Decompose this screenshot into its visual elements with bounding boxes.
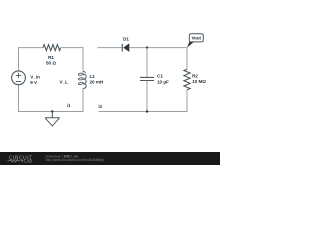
resistor R1 xyxy=(43,45,61,51)
svg-text:http://www.circuitlab.com/circ: http://www.circuitlab.com/circuit/4888bg… xyxy=(46,158,105,162)
voltage source V_in xyxy=(12,71,26,85)
svg-text:50 Ω: 50 Ω xyxy=(46,61,56,66)
wire diode to top-right corner xyxy=(129,48,187,70)
wire R1 to top-right corner of left loop xyxy=(61,48,83,72)
Vout flag pointer xyxy=(187,42,194,48)
ground junction dot xyxy=(51,110,53,112)
wire R2 bottom to bottom rail xyxy=(99,90,188,112)
svg-text:C1: C1 xyxy=(157,74,163,79)
diode D1 xyxy=(122,43,129,52)
svg-text:V_L: V_L xyxy=(60,80,69,85)
svg-text:D1: D1 xyxy=(123,36,129,41)
inductor L1 xyxy=(78,72,86,89)
footer bar xyxy=(0,152,220,165)
node junction dot bottom (C1 tap) xyxy=(146,110,148,112)
ground xyxy=(45,112,60,126)
svg-text:R1: R1 xyxy=(48,55,54,60)
svg-text:20 mH: 20 mH xyxy=(90,80,104,85)
svg-text:i2: i2 xyxy=(98,104,102,109)
svg-text:V_in: V_in xyxy=(30,74,40,79)
svg-text:10 µF: 10 µF xyxy=(157,79,169,84)
CircuitLab logo resistor zigzag xyxy=(8,160,21,163)
wire L1 down to bottom wire of left loop xyxy=(19,85,84,112)
svg-text:Vout: Vout xyxy=(192,36,202,41)
resistor R2 xyxy=(184,69,190,90)
svg-text:i1: i1 xyxy=(67,103,71,108)
wire C1 top branch xyxy=(146,48,148,77)
svg-text:9 V: 9 V xyxy=(30,80,38,85)
CircuitLab logo arrow xyxy=(22,160,24,163)
svg-text:10 MΩ: 10 MΩ xyxy=(192,79,206,84)
wire C1 bottom branch xyxy=(146,81,148,112)
capacitor C1 xyxy=(140,77,154,80)
node junction dot top (C1 tap) xyxy=(146,46,148,48)
svg-text:LAB: LAB xyxy=(24,158,32,163)
svg-text:R2: R2 xyxy=(192,74,198,79)
wire right-loop top lead-in xyxy=(98,47,122,49)
svg-text:L1: L1 xyxy=(90,74,96,79)
Vout flag box xyxy=(189,34,203,42)
wire top-left horizontal (V_in to R1) xyxy=(19,48,44,71)
